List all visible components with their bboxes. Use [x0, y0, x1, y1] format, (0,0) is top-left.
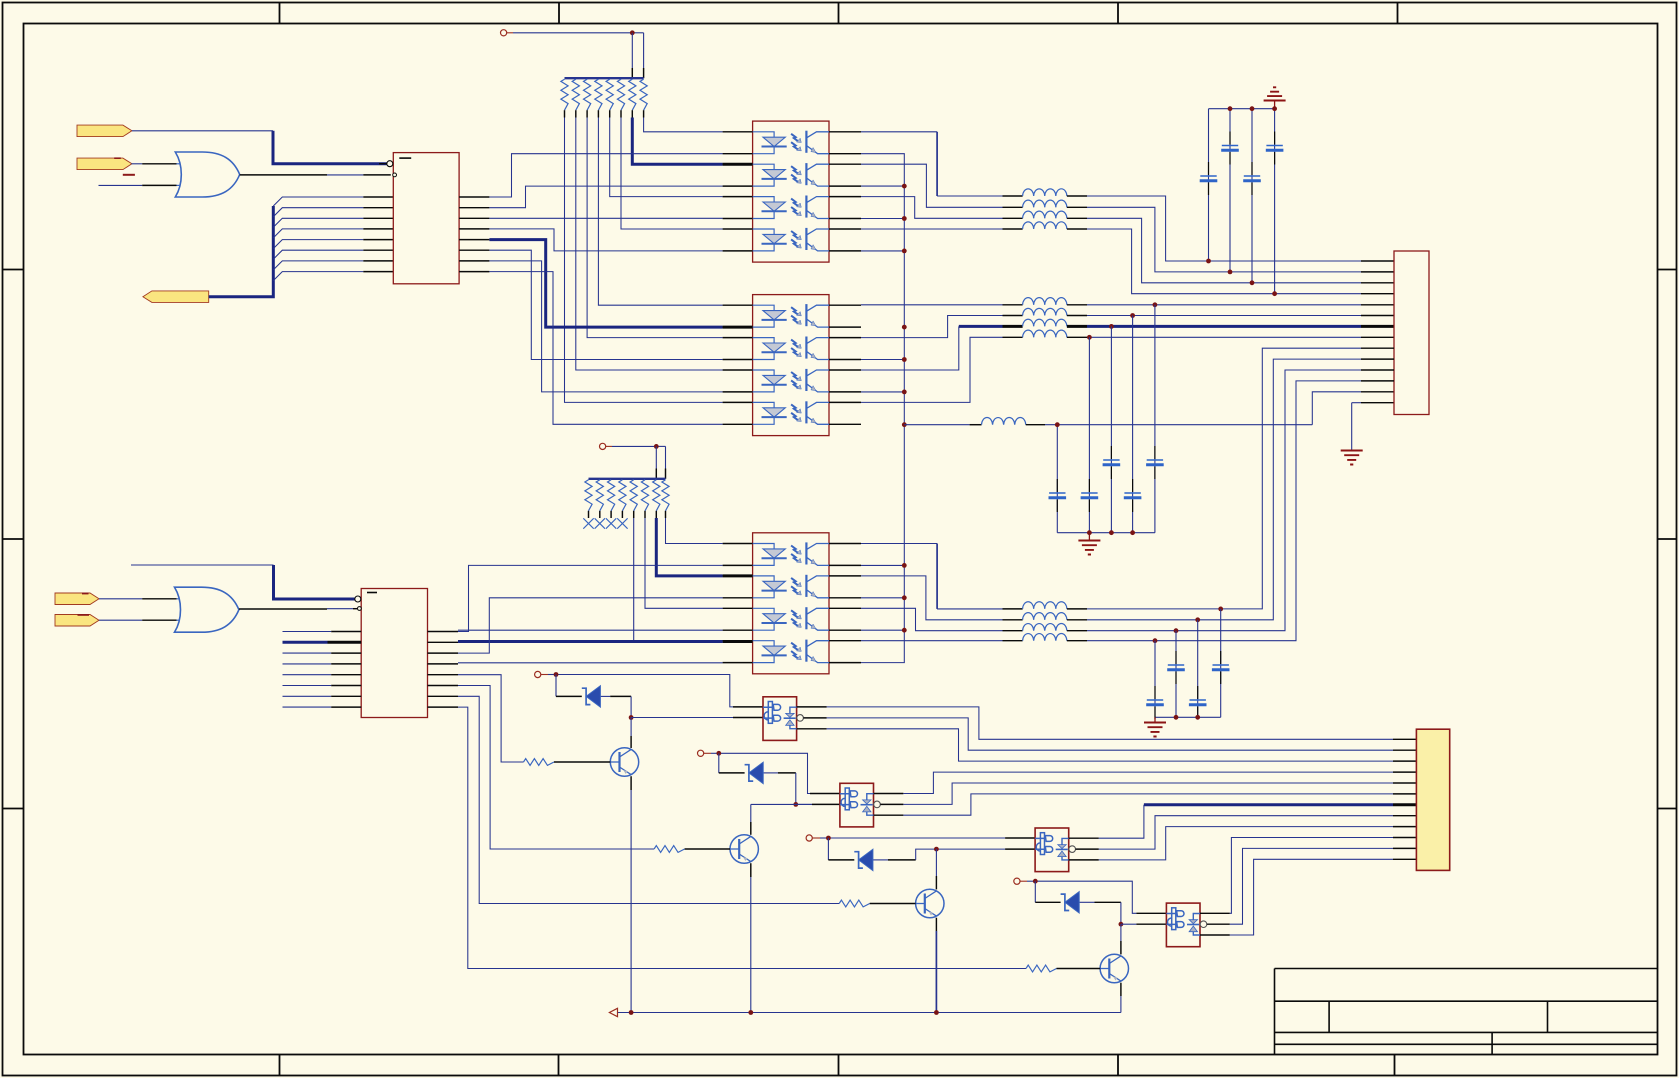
junction	[654, 444, 659, 449]
wire opto1 ch1 collector via L to P2 pin1	[861, 132, 1394, 261]
junctions coil2 rows	[1087, 302, 1157, 339]
junction	[629, 715, 634, 720]
resistor R3	[839, 900, 870, 907]
wire OR2 input2	[99, 619, 177, 621]
resistor R4	[1026, 965, 1057, 972]
wire opto2 ch1 collector to P2 pin5	[861, 298, 1394, 305]
wire RP1 columns to opto LED anodes	[565, 118, 723, 403]
wire thick to U5 pin1	[274, 565, 355, 599]
no-ERC X marks	[583, 518, 627, 528]
wire K1 to P3 pin2	[827, 718, 1417, 750]
zener diode D1	[582, 688, 591, 704]
K4 pin circle	[1200, 921, 1207, 928]
wire K3 thick to P3 pin7	[1099, 805, 1417, 838]
net label dash	[78, 614, 90, 616]
no-connect NC4	[698, 750, 704, 756]
wire U5 p1 to opto3 ch1 cathode	[458, 565, 723, 631]
zener diode D2	[745, 765, 754, 781]
wire OR1 input1	[131, 163, 176, 165]
resistor pack RP2 (8 resistors)	[585, 480, 669, 511]
wire U5 p4 to opto3 ch4 cathode	[458, 662, 723, 664]
wire R4 to Q4 base	[1057, 968, 1101, 970]
wire K1 to P3 pin1	[827, 707, 1417, 739]
thick pins	[723, 164, 753, 641]
port P1	[77, 125, 132, 137]
wire node to relay K4 pin2	[1121, 923, 1167, 925]
capacitor C13	[1213, 664, 1229, 666]
wire OR1 input2	[99, 184, 177, 186]
resistor R2	[654, 846, 685, 853]
port P3	[143, 291, 209, 303]
wire cap C3 leg	[1251, 109, 1253, 283]
wire opto1 ch3 collector via L to P2 pin3	[861, 197, 1394, 283]
K4 right pins	[1200, 913, 1230, 935]
wire OR2 input1	[99, 598, 177, 600]
wire single inductor net	[904, 392, 1394, 425]
junction	[716, 751, 721, 756]
junction	[1055, 422, 1060, 427]
capacitor C1	[1200, 175, 1216, 177]
wire opto2 ch3 collector thick to P2 pin7	[861, 319, 1394, 370]
wire R1 to Q1 base	[554, 761, 610, 763]
port P5	[55, 615, 99, 627]
wire zener D3 wiring	[828, 838, 1035, 860]
K1 pin circle	[797, 715, 804, 722]
IC U1	[393, 153, 459, 284]
wire K4 to P3 pin10	[1230, 838, 1417, 914]
junction	[826, 836, 831, 841]
wire U1 p5 thick to opto2 ch1 cathode	[489, 240, 722, 328]
U5 pin2 bubble	[358, 607, 362, 611]
capacitor C10	[1147, 699, 1163, 701]
wire U5 p2 thick to opto3 ch4 anode	[458, 640, 723, 643]
IC U5	[361, 589, 427, 718]
optocoupler U4	[753, 533, 829, 674]
wire OR1 output to U1 pin2	[240, 174, 391, 176]
wire K3 to P3 pin8	[1099, 816, 1417, 849]
relay K2	[840, 783, 874, 827]
wire NC1 to resistor pack 1	[513, 32, 644, 34]
capacitor C11	[1168, 664, 1184, 666]
capacitor C4	[1266, 145, 1282, 147]
wire zener D2 wiring	[719, 753, 796, 804]
wire pack1 feed b	[643, 33, 645, 78]
wire zener D4 wiring	[1035, 881, 1121, 924]
wire zener D1 wiring	[556, 675, 631, 718]
ground (P2)	[1341, 451, 1363, 465]
net label dash	[114, 157, 121, 159]
wire OR2 output to U5 pin2	[239, 608, 358, 610]
wire U1 p7 to opto2 ch3 cathode	[489, 261, 722, 392]
capacitor C2	[1222, 145, 1238, 147]
connector P2	[1394, 251, 1429, 415]
port P4	[55, 593, 99, 605]
title block	[1275, 969, 1658, 1055]
junctions	[1087, 530, 1135, 535]
wire RP1 col8 to opto1 ch1 anode	[644, 118, 723, 132]
U5 right pins	[428, 632, 459, 708]
optocoupler U3	[753, 295, 829, 436]
capacitor C12	[1190, 699, 1206, 701]
wire U5 p8 to Q4 base	[458, 707, 1026, 968]
wire U1 p2 to opto1 ch2 cathode	[489, 186, 722, 208]
wire emitter ground rail	[618, 1012, 1121, 1014]
OR gate U2A	[175, 152, 239, 197]
wire U5 to opto3 ch3 cathode	[458, 629, 723, 631]
transistor Q3	[916, 889, 944, 917]
open arrow terminal	[609, 1008, 617, 1016]
wire relay K2 drive row	[751, 803, 812, 805]
wire port P3 thick bus	[209, 206, 274, 297]
wire opto3 ch1 collector to P2 pin9	[861, 348, 1394, 609]
no-connect NC3	[535, 671, 541, 677]
K3 pin circle	[1069, 846, 1076, 853]
junction	[630, 30, 635, 35]
K1 right pins	[797, 707, 827, 729]
K2 pin circle	[874, 801, 881, 808]
wire opto1 ch4 collector via L to P2 pin4	[861, 222, 1394, 294]
wire cap C1 leg	[1208, 109, 1210, 261]
wire Q3 emitter	[935, 918, 937, 1013]
relay K1	[763, 697, 797, 741]
wire NC3 net to relay K1	[548, 675, 763, 707]
wire RP2 col7 thick to opto3 ch2 anode	[656, 518, 722, 576]
wire K1 to P3 pin3	[827, 729, 1417, 761]
wire Q4 collector	[1120, 924, 1122, 954]
wire NC4 net to relay K2	[711, 753, 840, 793]
wire U5 p3 to opto3 ch2 cathode	[458, 598, 723, 653]
no-connect NC6	[1014, 878, 1020, 884]
wire pack1 rail	[565, 77, 644, 79]
junction	[934, 847, 939, 852]
wire port P1 to U1 pin1	[132, 130, 273, 132]
wire opto3 ch3 collector to P2 pin11	[861, 370, 1394, 631]
junctions coil3 rows	[1153, 607, 1224, 644]
ground (top)	[1264, 87, 1286, 100]
wire K4 to P3 pin12	[1230, 859, 1417, 935]
wire emitter common rail	[861, 154, 904, 663]
wire Q2 emitter	[750, 863, 752, 1012]
resistor R1	[524, 759, 555, 766]
wire R3 to Q3 base	[870, 903, 916, 905]
wire U1 p8 to opto2 ch4 cathode	[489, 272, 722, 425]
wire opto3 ch2 collector to P2 pin10	[861, 359, 1394, 620]
wire U1 p3 to opto1 ch3 cathode	[489, 217, 722, 219]
transistor Q4	[1100, 954, 1128, 982]
relay K4	[1166, 903, 1200, 947]
capacitor C6	[1081, 492, 1097, 494]
junctions	[1206, 106, 1277, 296]
resistor pack RP1 (8 resistors)	[561, 79, 647, 110]
wire pack1 feed a	[631, 33, 633, 78]
wire opto2 ch2 collector to P2 pin6	[861, 308, 1394, 337]
wire mid cap legs	[1057, 305, 1155, 533]
wire OR1 inner stubs	[177, 164, 183, 186]
wire RP2 col5	[633, 518, 635, 641]
wire pack2 feed b	[665, 446, 667, 478]
wire bus fan to U1 pins	[273, 197, 393, 281]
RP2 bottom pins	[589, 511, 666, 518]
junctions on rail	[902, 184, 907, 633]
wire NC5 net to relay K3	[820, 837, 1035, 839]
wire NC6 net to relay K4	[1027, 881, 1166, 913]
transistor Q2	[730, 835, 758, 863]
junction	[554, 672, 559, 677]
wire cap C2 leg	[1229, 109, 1231, 272]
net label dash	[123, 174, 135, 176]
wire pack2 feed a	[655, 446, 657, 478]
wire cap group1 rail	[1209, 108, 1275, 110]
junction	[1119, 922, 1124, 927]
U1 pin 1 clock bubble	[379, 163, 387, 165]
wire opto2 ch4 collector to P2 pin8	[861, 330, 1394, 402]
ground (bottom caps)	[1154, 717, 1156, 722]
wire pack2 rail	[589, 478, 666, 480]
capacitor C3	[1244, 175, 1260, 177]
junctions on ground rail	[629, 1010, 939, 1015]
K2 right pins	[874, 794, 904, 816]
optocoupler U2	[753, 121, 829, 262]
no-connect NC5	[806, 835, 812, 841]
wire U5 p7 to Q3 base	[458, 696, 839, 903]
wire Q1 collector	[630, 718, 632, 749]
wire K3 to P3 pin9	[1099, 827, 1417, 860]
wire Q1 emitter	[630, 776, 632, 1012]
wire K2 to P3 pin4	[903, 772, 1416, 793]
wire Q3 collector	[935, 849, 937, 889]
junction	[1033, 879, 1038, 884]
ground (mid)	[1088, 533, 1090, 540]
wire K2 to P3 pin5	[903, 783, 1416, 804]
no-connect NC1	[501, 30, 507, 36]
wire U1 p1 to opto1 ch1 cathode	[489, 154, 722, 197]
capacitor C8	[1124, 492, 1140, 494]
U5 pin1 clock bubble	[355, 596, 361, 602]
wire K4 to P3 pin11	[1230, 848, 1417, 924]
wire U5 p6 to Q2 base	[458, 686, 654, 850]
wire Q4 emitter	[1120, 983, 1122, 1013]
U5 left pins	[283, 632, 362, 708]
wire P2 pin14 to ground	[1352, 403, 1394, 450]
wire node to relay K2 pin2	[796, 803, 840, 805]
wire stub to U5 pin1	[131, 564, 274, 566]
no-connect NC2	[600, 443, 606, 449]
wire U1 p6 to opto2 ch2 cathode	[489, 250, 722, 359]
wire RP2 col8 to opto3 ch1 anode	[666, 518, 723, 544]
RP1 bottom pins	[565, 110, 644, 117]
wire K2 to P3 pin6	[903, 794, 1416, 815]
zener diode D3	[854, 852, 863, 868]
OR gate U6A	[175, 587, 239, 632]
wire R2 to Q2 base	[685, 848, 730, 850]
junctions	[1174, 715, 1201, 720]
wire bus port P1 thick	[273, 131, 387, 164]
capacitor C7	[1103, 459, 1119, 461]
transistor Q1	[610, 748, 638, 776]
zener diode D4	[1061, 894, 1070, 910]
wire U5 p5 to Q1 base	[458, 675, 524, 762]
wire cap C4 leg	[1274, 109, 1276, 294]
wire RP1 col7 thick to opto1 ch2 anode	[632, 118, 722, 165]
relay K3	[1035, 828, 1069, 872]
wire opto1 ch2 collector via L to P2 pin2	[861, 164, 1394, 272]
wire NC2 to pack2	[612, 445, 666, 447]
port P2	[77, 158, 132, 170]
junction	[793, 802, 798, 807]
wire Q2 collector	[750, 804, 752, 834]
wire U1 p4 to opto1 ch4 cathode	[489, 229, 722, 251]
U1 right pins	[459, 197, 489, 272]
wire bottom cap legs	[1155, 609, 1221, 717]
capacitor C9	[1147, 459, 1163, 461]
wire node to relay K1 pin2	[631, 717, 763, 719]
K3 right pins	[1069, 838, 1099, 860]
wire OR2 inner stubs	[177, 599, 183, 620]
wire RP2 col6 to opto3 ch3 anode	[645, 518, 723, 608]
capacitor C5	[1049, 492, 1065, 494]
net label dash	[82, 593, 89, 595]
U1 pin 2 bubble	[393, 173, 397, 177]
connector P3	[1416, 729, 1449, 870]
wire opto3 ch4 collector to P2 pin12	[861, 381, 1394, 641]
